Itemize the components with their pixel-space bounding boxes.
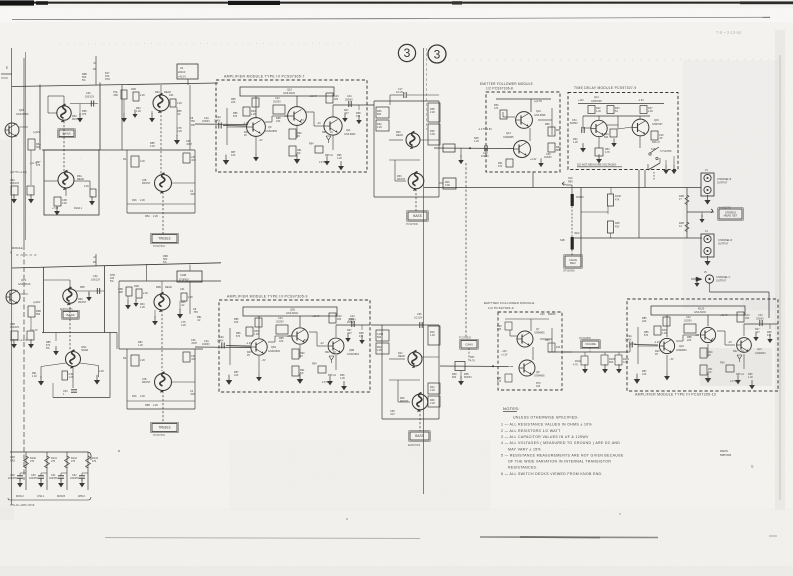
ground right cluster module 10 (753, 332, 759, 341)
scan edge black bar top (0, 2, 793, 4)
svg-text:2.2K: 2.2K (153, 404, 158, 407)
resistor R24 (610, 129, 617, 137)
svg-text:670: 670 (644, 334, 649, 337)
svg-text:Q1S: Q1S (21, 278, 26, 282)
resistor R6A (28, 139, 35, 150)
resistor R4B upper on drop (686, 188, 688, 239)
svg-text:45V: 45V (615, 225, 620, 228)
wire mid rail ch2 upper (42, 332, 117, 334)
svg-text:FRONT: FRONT (400, 400, 409, 403)
resistor R-e module 9 (292, 366, 299, 376)
svg-text:1.2K: 1.2K (136, 110, 141, 113)
svg-text:470: 470 (498, 165, 503, 168)
svg-text:Q14: Q14 (594, 96, 599, 99)
svg-text:Q13: Q13 (506, 132, 511, 135)
svg-text:R57: R57 (191, 124, 196, 127)
ground row module 10 (634, 374, 640, 384)
input capacitor module 9 (222, 343, 224, 349)
svg-text:-1.4V: -1.4V (243, 122, 249, 125)
svg-text:SYS92886: SYS92886 (660, 150, 672, 153)
resistor R26 (651, 131, 658, 140)
emitter follower module ch2 dashed outline (498, 312, 562, 390)
resistor R60 (505, 322, 512, 330)
resistor R43 (428, 326, 440, 345)
svg-text:1K: 1K (333, 351, 336, 354)
wafer contact bar 1 (571, 194, 574, 206)
resistor R-g module 10 (737, 312, 744, 322)
wire EF2 internals (505, 318, 549, 320)
resistor cluster lower box A (54, 197, 61, 206)
svg-text:Q11: Q11 (346, 129, 351, 132)
ground right cluster module 7 (342, 113, 348, 122)
wire into module 10 (628, 351, 630, 353)
svg-text:-4V: -4V (728, 341, 732, 344)
mechanical link mid ch2 (419, 410, 421, 431)
switch S1B contacts (649, 153, 651, 155)
potentiometer R8B rear ch2 (66, 350, 81, 369)
svg-text:HEAD SET: HEAD SET (724, 213, 738, 217)
svg-text:270: 270 (71, 460, 76, 463)
resistor R142 PSU branch (66, 452, 68, 490)
svg-text:R89: R89 (545, 123, 550, 126)
wire interconnect module 9 (258, 316, 260, 338)
svg-text:1.2K: 1.2K (138, 344, 143, 347)
svg-text:22K: 22K (276, 120, 281, 123)
svg-text:-.3V: -.3V (258, 139, 263, 142)
jack phones output (705, 275, 713, 283)
svg-text:+7.08: +7.08 (52, 207, 59, 210)
svg-text:GS3-6604: GS3-6604 (286, 311, 298, 315)
svg-text:2.2K: 2.2K (140, 395, 145, 398)
svg-text:22K: 22K (687, 339, 692, 342)
potentiometer R8A rear (58, 171, 74, 191)
capacitor C31 PSU branch (58, 476, 64, 478)
svg-text:2.2K: 2.2K (648, 110, 653, 113)
time delay module dashed outline (568, 93, 678, 170)
svg-text:470: 470 (92, 460, 97, 463)
resistor R63B (548, 343, 555, 352)
svg-text:-1.4V: -1.4V (246, 342, 252, 345)
svg-text:PCS97304: PCS97304 (153, 434, 165, 437)
resistor R102 (584, 352, 586, 356)
svg-text:+1.2V: +1.2V (501, 354, 508, 357)
svg-text:+43.1V: +43.1V (178, 76, 186, 79)
svg-text:2.4V: 2.4V (150, 145, 155, 148)
mechanical link mid ch1 (415, 189, 417, 211)
svg-text:EMITTER FOLLOWER MODULE: EMITTER FOLLOWER MODULE (484, 301, 535, 305)
resistor R17 A (170, 99, 176, 107)
label box CHAN REV (564, 255, 582, 268)
svg-text:.755: .755 (190, 120, 195, 123)
svg-text:2.2K: 2.2K (99, 370, 104, 373)
transistor Q9 (247, 118, 266, 137)
svg-text:GS94806: GS94806 (534, 375, 545, 378)
svg-text:470: 470 (497, 328, 502, 331)
transistor Q1B input (5, 123, 19, 137)
svg-text:-.3V: -.3V (261, 359, 266, 362)
ground right cluster module 9 (345, 333, 351, 342)
svg-text:100/12V: 100/12V (85, 95, 94, 98)
mechanical link bass A (63, 121, 65, 171)
capacitor C29 PSU branch (17, 476, 23, 478)
capacitor C10B (177, 271, 202, 282)
svg-text:22K: 22K (279, 340, 284, 343)
svg-text:.755: .755 (193, 311, 198, 314)
svg-text:975: 975 (82, 113, 87, 116)
wire interconnect module 10 (666, 315, 668, 337)
svg-text:5 — RESISTANCE MEASUREMENTS: 5 — RESISTANCE MEASUREMENTS ARE NOT GIVE… (501, 454, 624, 458)
svg-text:+11.4V: +11.4V (312, 315, 320, 318)
svg-text:OUTPUT: OUTPUT (718, 243, 729, 246)
svg-text:100/12V: 100/12V (91, 278, 100, 281)
wire feed to emitter follower ch2 (440, 365, 511, 368)
svg-text:12K: 12K (231, 154, 236, 157)
svg-text:GS3-6604: GS3-6604 (694, 310, 706, 314)
resistor R-e module 7 (289, 146, 296, 156)
capacitor C4 (177, 64, 198, 79)
potentiometer R5B bass front ch2 (63, 287, 77, 305)
wire mid rail treble ch2 (119, 348, 203, 350)
wafer mechanical dashes (571, 206, 573, 237)
svg-text:(-2V TO +1.2V): (-2V TO +1.2V) (10, 339, 27, 342)
svg-text:GS3-6604: GS3-6604 (283, 91, 295, 95)
svg-text:R6B: R6B (156, 286, 161, 289)
capacitor C49 ch2 (62, 371, 68, 380)
svg-text:4.7K: 4.7K (573, 364, 578, 367)
svg-text:270: 270 (30, 460, 35, 463)
amplifier module 7 dashed outline (216, 80, 367, 172)
ground row treble ch2 (125, 300, 131, 309)
transistor Q19 (659, 338, 674, 353)
transistor Q10 (288, 107, 307, 126)
svg-text:-4V: -4V (317, 122, 321, 125)
svg-text:1.2K: 1.2K (251, 113, 256, 116)
label box BASS mid ch1 (407, 211, 428, 221)
svg-text:.002: .002 (190, 193, 195, 196)
svg-text:DO NOT MEASURE VOLTAGES: DO NOT MEASURE VOLTAGES (577, 163, 616, 167)
resistor R54 (548, 143, 555, 152)
svg-text:Q55: Q55 (290, 308, 295, 312)
svg-text:R5B: R5B (145, 404, 150, 407)
svg-text:C10B: C10B (180, 274, 186, 277)
svg-text:CR3: CR3 (10, 460, 16, 463)
svg-text:3.3K: 3.3K (445, 184, 450, 187)
resistor R36B (376, 330, 389, 341)
resistor R104 (618, 352, 620, 355)
svg-text:FRONT: FRONT (142, 182, 151, 185)
label box TREBLE A (151, 233, 178, 243)
resistor R36A (376, 107, 389, 118)
svg-text:REV: REV (568, 181, 573, 184)
svg-text:GS316666: GS316666 (16, 112, 29, 116)
capacitor C-a module 10 (684, 324, 696, 333)
svg-text:500: 500 (604, 136, 609, 139)
resistor R40B (376, 343, 389, 354)
svg-text:1K: 1K (330, 131, 333, 134)
resistor R-a module 7 (252, 98, 259, 107)
sheet number circled 3 left (398, 44, 415, 61)
diode CR module 9 (329, 356, 334, 363)
svg-text:12K: 12K (234, 374, 239, 377)
resistor R-a module 9 (255, 318, 262, 327)
svg-text:1.2K: 1.2K (662, 332, 667, 335)
resistor R141 PSU branch (46, 452, 48, 490)
svg-text:-8V: -8V (303, 339, 307, 342)
svg-text:R92: R92 (325, 351, 330, 354)
wire treble sub box A (126, 150, 128, 213)
ground row module 7 (223, 155, 229, 165)
svg-text:.0047: .0047 (191, 342, 198, 345)
svg-text:S1B: S1B (651, 148, 656, 151)
resistor R27 (640, 106, 647, 114)
wire pot loop A (63, 96, 65, 106)
feedback loop wire 10 (651, 306, 745, 315)
svg-text:MOD.B: MOD.B (57, 495, 65, 498)
svg-text:50/50V: 50/50V (570, 122, 578, 125)
svg-text:+11.4V: +11.4V (720, 314, 728, 317)
feedback loop wire 7 (240, 87, 334, 96)
svg-text:+2V: +2V (284, 115, 289, 118)
resistor R140 PSU branch (25, 452, 27, 490)
ground PSU branch 4 (79, 478, 85, 487)
svg-text:.002: .002 (190, 393, 195, 396)
svg-text:250/6V: 250/6V (345, 98, 353, 101)
svg-text:Q5A: Q5A (271, 346, 276, 349)
svg-text:R94: R94 (312, 363, 317, 366)
svg-text:R10A 1: R10A 1 (74, 207, 83, 210)
svg-text:REAR: REAR (398, 355, 405, 358)
ground row module 9 (226, 375, 232, 385)
resistor R48 (443, 144, 455, 152)
svg-text:S4B: S4B (560, 239, 565, 242)
sheet number circled 3 right (428, 45, 446, 63)
svg-text:Q12: Q12 (536, 110, 541, 113)
label box BASS mid ch2 (409, 431, 430, 441)
svg-text:12K: 12K (642, 373, 647, 376)
svg-text:R6A: R6A (155, 91, 160, 94)
svg-text:670: 670 (236, 335, 241, 338)
transistor Q2B input (6, 290, 20, 304)
svg-text:2.2K: 2.2K (140, 160, 145, 163)
resistor R143 PSU branch (87, 452, 89, 490)
wire jog to R130 (581, 211, 608, 213)
svg-text:100/6V: 100/6V (202, 343, 210, 346)
svg-text:EMA97306: EMA97306 (408, 444, 421, 447)
wire EF1 to bus (532, 172, 534, 188)
svg-text:20/6V: 20/6V (217, 339, 224, 342)
ground row input ch2 (11, 339, 17, 348)
capacitor C31 ch2 (183, 352, 190, 362)
svg-text:R1B: R1B (134, 285, 139, 288)
capacitor C30 branch ch2 (76, 290, 104, 292)
potentiometer R9A rear treble (153, 94, 169, 114)
resistor R130 (610, 188, 612, 195)
scan noise patch module 10 (700, 348, 772, 386)
resistor R23 (607, 106, 614, 114)
svg-text:600/6V: 600/6V (464, 376, 472, 379)
svg-text:PCS97306: PCS97306 (406, 223, 418, 226)
svg-text:E: E (6, 66, 8, 70)
ground EF1 bottom (538, 158, 544, 167)
svg-text:-8V: -8V (711, 338, 715, 341)
svg-text:3: 3 (404, 46, 411, 60)
resistor R50 (500, 110, 507, 119)
svg-text:REAR: REAR (396, 134, 403, 137)
svg-text:R16: R16 (132, 199, 137, 202)
wire bass pot box ch2 (43, 267, 45, 333)
svg-text:2.2K: 2.2K (430, 402, 435, 405)
svg-text:2.2K: 2.2K (140, 359, 145, 362)
potentiometer R12A treble front (155, 173, 172, 194)
resistor R-d module 9 (292, 349, 299, 359)
ground row treble A (121, 113, 127, 122)
svg-text:22K: 22K (234, 321, 239, 324)
resistor R22 (588, 106, 595, 114)
svg-text:3.3K: 3.3K (623, 361, 628, 364)
svg-text:2.2K: 2.2K (377, 126, 382, 129)
input capacitor module 10 (630, 342, 632, 348)
faint dust row (60, 43, 360, 44)
ground row TD (580, 143, 586, 152)
wire pot loop ch2 (69, 280, 71, 289)
svg-text:Q6B: Q6B (349, 349, 354, 352)
svg-text:(+)40V: (+)40V (33, 131, 41, 134)
wire treble sub box ch2 (126, 349, 128, 409)
svg-text:6 — ALL SWITCH DECKS VIEWED: 6 — ALL SWITCH DECKS VIEWED FROM KNOB EN… (501, 472, 603, 476)
svg-text:2.2K: 2.2K (143, 292, 148, 295)
svg-text:GS94803: GS94803 (676, 349, 687, 352)
svg-text:2.2K: 2.2K (140, 199, 145, 202)
svg-text:20/25V: 20/25V (684, 319, 692, 322)
svg-text:50K: 50K (609, 361, 614, 364)
transistor Q14 (591, 120, 607, 136)
svg-text:100/25V: 100/25V (49, 477, 58, 480)
svg-text:R95 41: R95 41 (325, 154, 334, 157)
svg-text:100/12V: 100/12V (10, 326, 19, 329)
svg-text:.002: .002 (191, 159, 196, 162)
svg-text:182: 182 (337, 318, 342, 321)
svg-text:GS3-6664: GS3-6664 (344, 133, 356, 136)
svg-text:680: 680 (556, 129, 561, 132)
svg-text:-1.4V: -1.4V (654, 341, 660, 344)
svg-text:1 — ALL RESISTANCE VALUES I: 1 — ALL RESISTANCE VALUES IN OHMS ± 10% (501, 423, 592, 427)
svg-text:20/25V: 20/25V (276, 320, 284, 323)
jack channel B output (701, 173, 714, 196)
capacitor C30 branch A (70, 103, 98, 105)
svg-text:100/25V: 100/25V (29, 477, 38, 480)
wire feed to emitter follower ch1 (434, 147, 514, 150)
wire riser x24 (23, 58, 25, 250)
resistor R-g module 9 (329, 313, 336, 323)
svg-text:1.2K: 1.2K (140, 306, 145, 309)
wire treble rail A (121, 85, 123, 150)
svg-text:2.2K: 2.2K (84, 185, 89, 188)
svg-text:100/25V: 100/25V (8, 477, 17, 480)
resistor R40 (376, 120, 389, 131)
svg-text:820: 820 (377, 113, 382, 116)
headset plug (687, 211, 714, 213)
potentiometer R30 rear (406, 132, 420, 150)
potentiometer R5A bass front (57, 104, 71, 122)
svg-text:(+)40V: (+)40V (33, 301, 41, 304)
svg-text:2.2K: 2.2K (177, 130, 182, 133)
resistor R-e module 10 (700, 365, 707, 375)
diode CR module 7 (326, 136, 331, 143)
transistor Q11 (324, 117, 342, 135)
svg-text:FRONT: FRONT (78, 301, 87, 304)
ground row input ch1 (11, 194, 17, 203)
resistor R4B lower on drop (685, 222, 689, 232)
wire mid rail A (42, 149, 195, 151)
resistor R39 (428, 124, 440, 145)
series capacitor C38 (485, 145, 487, 151)
svg-text:TIME DELAY MODULE PCS97307-: TIME DELAY MODULE PCS97307-9 (574, 86, 637, 90)
amplifier module 10 dashed outline (627, 299, 778, 391)
transistor Q5B (292, 328, 308, 344)
svg-text:R1B: R1B (131, 88, 136, 91)
resistor R14 A (131, 156, 139, 167)
svg-text:1.2K: 1.2K (337, 157, 342, 160)
svg-text:PCS92896: PCS92896 (579, 337, 591, 340)
svg-text:R95 41: R95 41 (328, 374, 337, 377)
svg-text:270: 270 (51, 460, 56, 463)
transistor Q6B (328, 338, 344, 354)
svg-text:FRONT: FRONT (142, 381, 151, 384)
wire top rail 9 (244, 315, 339, 317)
svg-text:2.2K: 2.2K (430, 111, 435, 114)
capacitor C3 A (121, 90, 127, 99)
svg-text:1.2S: 1.2S (69, 376, 74, 379)
svg-text:2 — ALL RESISTORS 1/2 WATT: 2 — ALL RESISTORS 1/2 WATT (501, 429, 561, 433)
capacitor C3 ch2 (126, 287, 132, 296)
ground PSU branch 3 (58, 478, 64, 487)
scan shadow patches (683, 60, 778, 310)
svg-text:4 — ALL VOLTAGES ( MEASURED: 4 — ALL VOLTAGES ( MEASURED TO GROUND ) … (501, 441, 620, 445)
resistor R-f module 9 (318, 366, 326, 373)
svg-text:R58: R58 (80, 286, 85, 289)
svg-text:GS3-6696: GS3-6696 (534, 114, 546, 117)
resistor R6B (28, 306, 35, 317)
svg-text:.068: .068 (118, 291, 123, 294)
wire TD top rail (578, 103, 664, 105)
svg-text:2.2K: 2.2K (181, 324, 186, 327)
wire top rail 7 (241, 95, 336, 97)
feedback loop wire 9 (243, 307, 337, 316)
transistor Q7 (517, 331, 533, 347)
svg-text:GS94805: GS94805 (503, 136, 514, 139)
mechanical link treble A (160, 111, 162, 174)
svg-text:975: 975 (36, 164, 41, 167)
potentiometer R9B rear treble ch2 (154, 293, 170, 313)
resistor R57 (455, 362, 465, 371)
capacitor C-a module 7 (273, 105, 285, 114)
svg-text:AMPLIFIER MODULE TYPE III: AMPLIFIER MODULE TYPE III PCS97305-7 (224, 75, 305, 79)
svg-text:TREBLE: TREBLE (158, 426, 170, 430)
capacitor C54 ch2 (71, 390, 77, 392)
resistor R-c module 7 (243, 107, 250, 116)
svg-text:.047: .047 (390, 413, 395, 416)
fold crease line (423, 48, 425, 494)
wire pot R8A branches (44, 180, 58, 182)
svg-text:4.7K: 4.7K (470, 359, 475, 362)
input capacitor module 7 (219, 123, 221, 129)
svg-text:CHA.1: CHA.1 (37, 495, 45, 498)
svg-text:+12V: +12V (578, 99, 584, 102)
svg-text:R59: R59 (545, 339, 550, 342)
svg-text:WIR.C: WIR.C (78, 495, 85, 498)
wire phones to module 10 (709, 283, 711, 292)
svg-text:Q10: Q10 (287, 88, 292, 92)
